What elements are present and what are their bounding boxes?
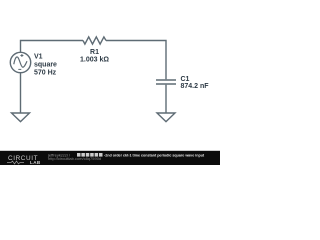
svg-text:LAB: LAB xyxy=(30,160,41,165)
svg-text:874.2 nF: 874.2 nF xyxy=(181,83,210,90)
svg-text:-2nd order ckt-1 time constant: -2nd order ckt-1 time constant periodic … xyxy=(104,153,205,157)
svg-text:V1: V1 xyxy=(34,53,43,60)
svg-text:square: square xyxy=(34,62,57,69)
svg-text:C1: C1 xyxy=(181,76,190,83)
svg-text:570 Hz: 570 Hz xyxy=(34,70,57,77)
svg-text:http://circuitlab.com/c8q7590d: http://circuitlab.com/c8q7590d xyxy=(48,156,101,161)
svg-text:1.003 kΩ: 1.003 kΩ xyxy=(80,57,109,64)
svg-text:R1: R1 xyxy=(90,49,99,56)
